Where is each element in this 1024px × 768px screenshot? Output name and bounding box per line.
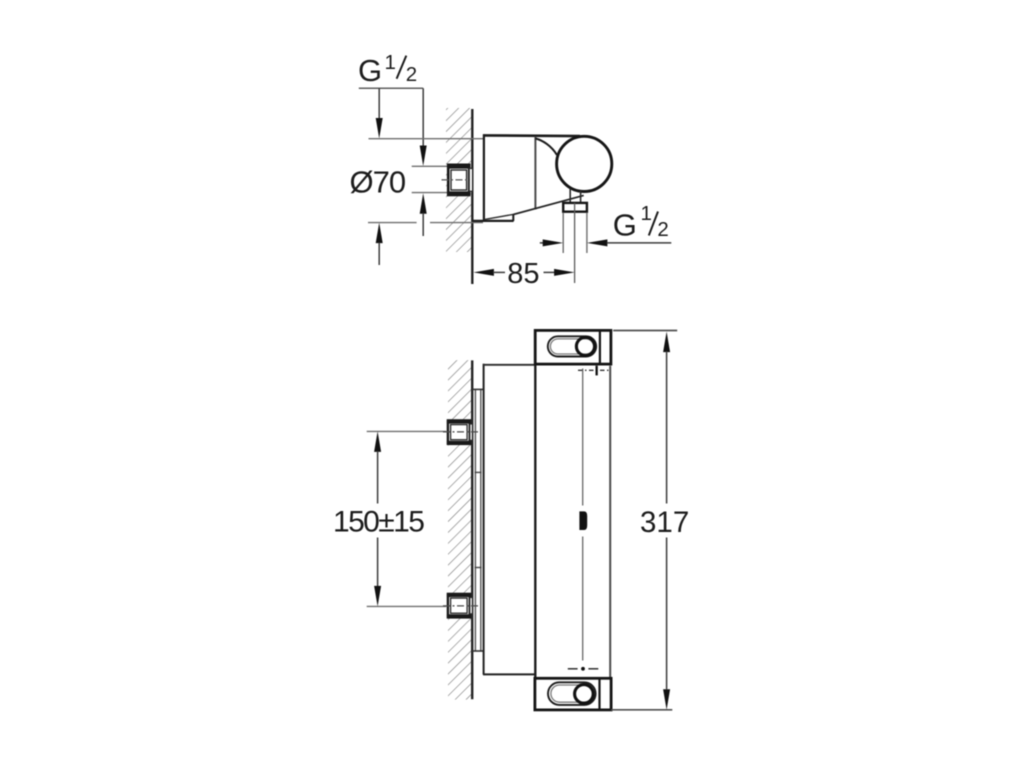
extension line plate top — [369, 138, 484, 140]
label G1/2 right — [613, 202, 669, 243]
arrow up onto fitting bottom (G1/2) — [420, 193, 427, 214]
svg-text:G: G — [358, 53, 382, 88]
label G1/2 top-left — [358, 51, 417, 88]
wall line (top view) — [471, 109, 473, 284]
svg-text:1: 1 — [385, 51, 396, 74]
extension line fitting bottom — [412, 192, 449, 194]
wall hatch (lower view) — [448, 360, 471, 699]
nipple extension line right — [586, 213, 588, 254]
mixer body front part — [535, 363, 610, 679]
bottom wall bracket — [535, 678, 611, 710]
svg-text:Ø70: Ø70 — [350, 164, 406, 199]
wall hatch (top view) — [446, 108, 471, 252]
svg-text:2: 2 — [657, 218, 668, 241]
svg-text:317: 317 — [640, 506, 689, 539]
centreline through fitting — [442, 179, 471, 181]
G1/2 outlet dimension arrows — [540, 239, 672, 246]
taper step — [512, 214, 514, 221]
arrow down onto fitting top (G1/2) — [420, 146, 427, 167]
top wall bracket — [535, 330, 611, 364]
svg-text:1: 1 — [641, 202, 652, 225]
wall line (lower view) — [471, 360, 473, 699]
small offset dimension below bracket — [578, 366, 610, 376]
underside slant to ring — [513, 195, 583, 214]
svg-text:G: G — [613, 208, 637, 243]
fillet curve to ring — [535, 138, 556, 154]
slider marker — [579, 511, 587, 530]
body back channel lines — [475, 389, 482, 651]
plate left edge — [483, 134, 485, 220]
wall fitting nut (top view) — [447, 165, 473, 195]
outlet nipple — [563, 203, 587, 212]
holder ring (top view) — [557, 136, 612, 191]
leader underline G1/2 top-left — [359, 87, 423, 89]
dimension 317 — [611, 331, 689, 710]
extension line plate bottom — [368, 222, 417, 224]
mixer body rear part — [483, 364, 535, 675]
bottom taper line — [484, 214, 513, 219]
holder mounting plate (top view) — [472, 134, 583, 221]
wall-to-body connector top — [472, 388, 483, 390]
dimension 150+-15 — [333, 431, 479, 606]
arrow down onto plate top (O70) — [378, 88, 380, 119]
nipple extension line left — [562, 213, 564, 254]
outlet centreline — [574, 203, 576, 283]
outlet pipe walls — [569, 189, 571, 204]
plate inner edge — [534, 137, 536, 210]
centreline end mark — [568, 667, 599, 671]
upper inlet fitting — [447, 420, 473, 444]
extension line fitting top — [412, 165, 449, 167]
arrow up onto plate bottom (O70) — [376, 223, 383, 244]
leader vertical to fitting — [422, 88, 424, 146]
svg-text:150±15: 150±15 — [333, 505, 424, 538]
lower inlet fitting — [447, 594, 473, 618]
plate top line — [483, 134, 580, 137]
svg-text:2: 2 — [406, 63, 417, 86]
dimension 85 — [473, 258, 574, 290]
svg-text:85: 85 — [507, 258, 539, 290]
plate bottom line — [472, 220, 513, 222]
wall-to-body connector bottom — [472, 650, 483, 652]
body centreline — [579, 369, 587, 661]
